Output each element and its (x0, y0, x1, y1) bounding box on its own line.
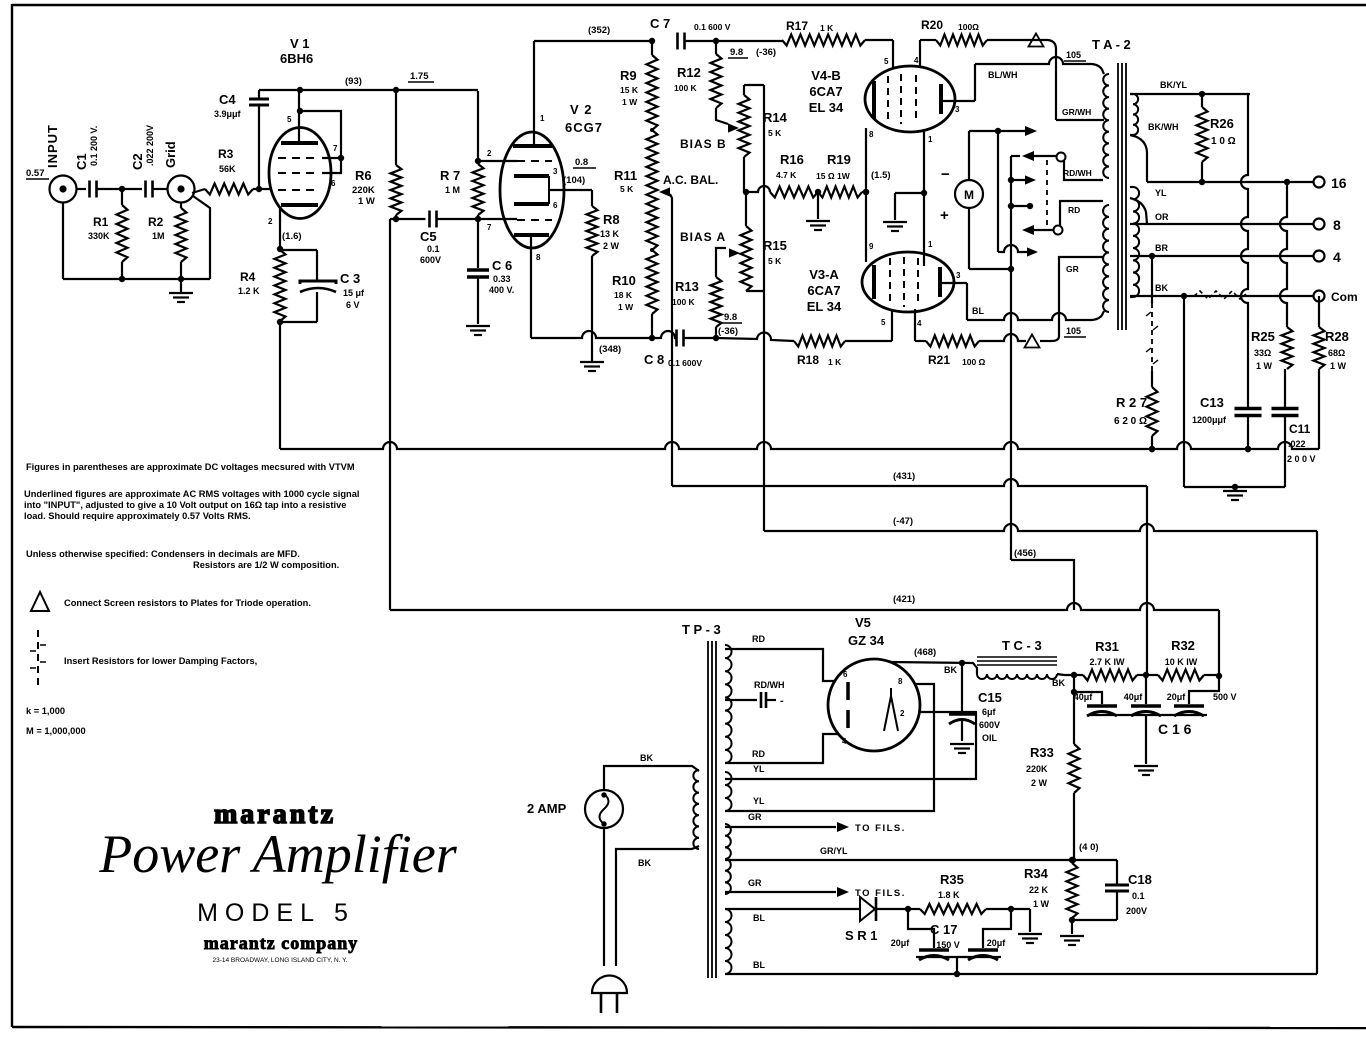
svg-text:C5: C5 (420, 229, 437, 244)
wire (684, 337, 717, 339)
svg-text:4: 4 (917, 319, 922, 328)
V2 grid2 (487, 220, 552, 232)
svg-text:RD: RD (752, 749, 765, 759)
svg-text:V5: V5 (855, 615, 871, 630)
terminal 4 (1314, 249, 1342, 265)
legend k (26, 706, 65, 716)
svg-text:V4-B: V4-B (811, 68, 841, 83)
svg-text:Figures in parentheses are app: Figures in parentheses are approximate D… (26, 462, 355, 472)
svg-text:3.9μμf: 3.9μμf (214, 109, 242, 119)
plate wire (352) (534, 25, 655, 44)
svg-text:9.8: 9.8 (730, 47, 743, 58)
V1 grids (278, 158, 320, 190)
svg-text:R2: R2 (148, 215, 164, 229)
C16 common (1089, 715, 1207, 764)
svg-text:105: 105 (1066, 326, 1081, 336)
resistor R12 (674, 41, 722, 108)
svg-text:R14: R14 (763, 110, 788, 125)
svg-text:T C - 3: T C - 3 (1002, 638, 1042, 653)
svg-text:500 V: 500 V (1213, 692, 1237, 702)
svg-text:1 W: 1 W (622, 97, 638, 107)
svg-text:8: 8 (1333, 217, 1341, 233)
svg-text:C 1 6: C 1 6 (1158, 721, 1192, 737)
svg-text:0.1 600V: 0.1 600V (668, 358, 702, 368)
fuse F1 2AMP (527, 790, 623, 828)
bias leg (1316, 531, 1318, 974)
damping insert marks (1194, 291, 1246, 299)
rectifier SR1 (845, 897, 911, 943)
svg-text:1.75: 1.75 (410, 71, 429, 82)
svg-text:0.57: 0.57 (26, 168, 45, 179)
TP-3 sec YL group (725, 772, 732, 811)
V5 internals (848, 682, 898, 731)
capacitor C7 (650, 16, 731, 50)
resistor R8 (587, 190, 620, 361)
svg-text:BK/YL: BK/YL (1160, 80, 1188, 90)
V2 grid1 (475, 91, 552, 164)
logo address (213, 957, 348, 964)
svg-text:GR: GR (748, 878, 762, 888)
ground (950, 744, 974, 753)
svg-text:R28: R28 (1325, 329, 1349, 344)
legend damping (30, 630, 257, 688)
BR tap (1130, 243, 1313, 259)
C17 common (916, 957, 1001, 977)
svg-text:8: 8 (869, 130, 874, 139)
svg-text:C 17: C 17 (930, 922, 957, 937)
svg-text:Resistors are 1/2 W compositio: Resistors are 1/2 W composition. (193, 560, 339, 570)
input jack J1 (45, 124, 77, 203)
note DC voltages (26, 462, 355, 472)
svg-text:R17: R17 (786, 19, 808, 33)
svg-text:3: 3 (956, 271, 961, 280)
svg-text:R4: R4 (240, 270, 256, 284)
svg-text:1.2 K: 1.2 K (238, 286, 260, 296)
svg-text:R9: R9 (620, 68, 637, 83)
svg-text:R11: R11 (614, 168, 637, 183)
svg-text:TO FILS.: TO FILS. (855, 823, 906, 834)
wire (279, 322, 281, 449)
svg-text:(1.5): (1.5) (871, 170, 891, 181)
TA-2 secondary upper (1130, 94, 1138, 135)
bus (421) (390, 594, 1219, 610)
V2 cathode box (514, 167, 592, 210)
svg-text:C 8: C 8 (644, 352, 664, 367)
svg-text:7: 7 (487, 223, 492, 232)
BIAS B wiper (716, 108, 739, 133)
svg-text:R15: R15 (763, 238, 787, 253)
svg-text:600V: 600V (979, 720, 1000, 730)
feedback bus (280, 442, 1319, 452)
svg-text:2 0 0 V: 2 0 0 V (1287, 454, 1316, 464)
svg-text:2 W: 2 W (603, 241, 620, 251)
svg-text:6: 6 (331, 179, 336, 188)
tube V4-B 6CA7 (809, 66, 955, 132)
svg-text:15 K: 15 K (620, 85, 639, 95)
16 ohm rail (1147, 179, 1313, 185)
svg-text:YL: YL (1155, 188, 1167, 198)
terminal Com (1314, 290, 1358, 304)
svg-text:R20: R20 (921, 18, 943, 32)
svg-text:16: 16 (1331, 175, 1347, 191)
label 9.8 -36 upper (728, 47, 776, 58)
svg-text:220K: 220K (352, 185, 375, 196)
svg-text:C 6: C 6 (492, 258, 512, 273)
svg-text:220K: 220K (1026, 764, 1048, 774)
svg-text:BR: BR (1155, 243, 1168, 253)
svg-text:load. Should require approxim: load. Should require approximately 0.57 … (24, 511, 251, 521)
svg-text:1.8 K: 1.8 K (938, 890, 960, 900)
terminal 16 (1314, 175, 1347, 191)
ground (1134, 766, 1158, 775)
label TA-2 (1092, 37, 1131, 52)
ground (1011, 909, 1042, 943)
431 feed to C16 (1146, 486, 1148, 675)
svg-text:1 0 Ω: 1 0 Ω (1211, 136, 1236, 147)
svg-text:M: M (964, 188, 974, 202)
V3 screen tap GR (1052, 257, 1103, 341)
svg-text:(-47): (-47) (893, 516, 913, 527)
svg-text:MODEL 5: MODEL 5 (197, 899, 355, 927)
svg-text:BIAS B: BIAS B (680, 137, 727, 151)
svg-text:8: 8 (536, 253, 541, 262)
com ground rail (1183, 296, 1185, 487)
svg-text:1 W: 1 W (618, 302, 634, 312)
TA-2 primary upper (1103, 74, 1109, 178)
svg-text:20μf: 20μf (987, 938, 1007, 948)
svg-text:R18: R18 (797, 353, 819, 367)
svg-text:56K: 56K (219, 164, 236, 174)
contact circle lower (1054, 226, 1063, 235)
cathode wire (348) (531, 331, 655, 355)
svg-text:40μf: 40μf (1124, 692, 1144, 702)
svg-text:2: 2 (268, 217, 273, 226)
svg-text:TO FILS.: TO FILS. (855, 888, 906, 899)
svg-text:6CA7: 6CA7 (807, 283, 840, 298)
resistor R28 (1314, 296, 1349, 449)
svg-text:k = 1,000: k = 1,000 (26, 706, 65, 716)
svg-text:(456): (456) (1014, 548, 1036, 559)
plate bus (93) (259, 76, 478, 93)
primary CT tap RD/WH (1063, 161, 1103, 180)
svg-text:RD/WH: RD/WH (1063, 168, 1092, 178)
choke TC-3 (977, 638, 1064, 679)
svg-text:into "INPUT", adjusted to give: into "INPUT", adjusted to give a 10 Volt… (24, 500, 346, 510)
capacitor C17 sect1 (891, 909, 949, 960)
contact dashed (1046, 160, 1048, 226)
V5 output (468) (890, 647, 977, 675)
BK/YL wire (1130, 80, 1250, 97)
svg-text:(421): (421) (893, 594, 915, 605)
svg-text:7: 7 (333, 144, 338, 153)
svg-text:0.1: 0.1 (427, 244, 440, 254)
svg-text:1 W: 1 W (1330, 361, 1347, 371)
BIAS A wiper (716, 248, 740, 277)
svg-text:(348): (348) (599, 344, 621, 355)
svg-text:C 7: C 7 (650, 16, 670, 31)
wire (438, 216, 518, 222)
note condensers (26, 549, 339, 570)
V3 pin5 (881, 310, 892, 341)
svg-text:BL: BL (753, 960, 765, 970)
svg-text:2: 2 (487, 149, 492, 158)
svg-text:1: 1 (540, 114, 545, 123)
resistor R21 (915, 336, 986, 368)
svg-text:C1: C1 (74, 153, 89, 170)
svg-text:R25: R25 (1251, 329, 1275, 344)
svg-text:YL: YL (753, 764, 765, 774)
svg-text:(4 0): (4 0) (1079, 842, 1099, 853)
svg-text:150 V: 150 V (936, 940, 960, 950)
plug (592, 846, 699, 1013)
svg-text:YL: YL (753, 796, 765, 806)
pot R15 (741, 192, 787, 291)
svg-text:(431): (431) (893, 471, 915, 482)
logo company (204, 933, 358, 953)
svg-text:marantz company: marantz company (204, 933, 358, 953)
svg-text:5 K: 5 K (768, 256, 782, 266)
contact arrows (1022, 151, 1056, 235)
svg-text:Insert Resistors for lower Da: Insert Resistors for lower Damping Facto… (64, 656, 257, 666)
V3 pin3 plate wire (942, 271, 967, 283)
capacitor C4 (214, 90, 269, 192)
svg-text:BL: BL (753, 913, 765, 923)
V1 plate (281, 90, 318, 143)
svg-text:BK: BK (1155, 283, 1168, 293)
V4 pin3 plate wire (943, 101, 975, 114)
svg-text:6BH6: 6BH6 (280, 51, 313, 66)
svg-text:BL: BL (972, 306, 984, 316)
svg-text:10 K IW: 10 K IW (1165, 657, 1198, 667)
svg-text:BK: BK (1052, 678, 1065, 688)
label 0.8 (573, 157, 596, 168)
resistor R7 (440, 161, 484, 219)
primary tap RD (1060, 201, 1103, 226)
svg-text:A.C. BAL.: A.C. BAL. (663, 173, 718, 187)
svg-text:BK: BK (638, 858, 651, 868)
svg-text:2 W: 2 W (1031, 778, 1048, 788)
label TP-3 (682, 622, 721, 637)
svg-text:(1.6): (1.6) (282, 231, 302, 242)
terminal 8 (1314, 217, 1342, 233)
svg-text:23-14 BROADWAY, LONG ISLAND: 23-14 BROADWAY, LONG ISLAND CITY, N. Y. (213, 957, 348, 964)
svg-text:22 K: 22 K (1029, 885, 1049, 895)
svg-text:.022 200V: .022 200V (145, 125, 155, 166)
capacitor C16 sect2 (1124, 675, 1161, 716)
svg-text:−: − (941, 166, 950, 183)
svg-text:C18: C18 (1128, 872, 1152, 887)
V3 pin4 (915, 309, 922, 341)
YL tap (1130, 188, 1167, 224)
svg-text:1 W: 1 W (1256, 361, 1273, 371)
svg-text:(104): (104) (563, 175, 585, 186)
node wire (390, 216, 426, 222)
svg-text:4: 4 (1333, 249, 1341, 265)
resistor R11 (614, 130, 658, 250)
421 leg to R32 (1218, 610, 1220, 676)
capacitor C13 (1192, 395, 1262, 452)
svg-text:V 2: V 2 (570, 102, 593, 117)
svg-text:Connect Screen resistors to P: Connect Screen resistors to Plates for T… (64, 598, 311, 608)
label 1.75 (408, 71, 434, 82)
svg-text:100 K: 100 K (672, 297, 696, 307)
label BK 2 (1052, 678, 1065, 688)
svg-text:R 7: R 7 (440, 168, 460, 183)
YL upper lead (725, 712, 976, 779)
V2 plate1 (513, 41, 552, 146)
svg-text:18 K: 18 K (614, 290, 633, 300)
svg-text:BIAS A: BIAS A (680, 230, 726, 244)
TP-3 primary (693, 770, 699, 849)
svg-text:+: + (940, 207, 949, 224)
YL lower lead (725, 684, 934, 811)
svg-text:(-36): (-36) (718, 326, 738, 337)
svg-text:(93): (93) (345, 76, 362, 87)
svg-text:Grid: Grid (163, 141, 178, 168)
label (456) (1014, 548, 1036, 559)
svg-text:(352): (352) (588, 25, 610, 36)
svg-text:8: 8 (898, 677, 903, 686)
svg-text:6 V: 6 V (346, 300, 360, 310)
svg-text:BK/WH: BK/WH (1148, 122, 1179, 132)
resistor R1 (88, 189, 128, 279)
svg-text:M = 1,000,000: M = 1,000,000 (26, 726, 86, 736)
wire+triangle (979, 334, 1052, 348)
capacitor C2 (130, 125, 155, 198)
V3 plate to primary BL (967, 283, 1104, 337)
svg-text:Unless otherwise specified:: Unless otherwise specified: Condensers i… (26, 549, 300, 559)
svg-text:EL 34: EL 34 (809, 100, 844, 115)
bus (-47) (764, 516, 1317, 531)
tube V2 6CG7 (500, 102, 603, 248)
label 9.8 -36 lower (718, 312, 742, 337)
resistor R27 (1114, 256, 1158, 452)
svg-text:C2: C2 (130, 153, 145, 170)
TA-2 secondary lower (1130, 187, 1139, 297)
capacitor C16 sect3 (1167, 676, 1237, 716)
pot R14 (739, 85, 788, 192)
svg-text:1: 1 (928, 240, 933, 249)
svg-text:(468): (468) (914, 647, 936, 658)
fuse wires BK (604, 753, 699, 966)
wire (153, 188, 168, 190)
bias rail -47 (763, 85, 765, 531)
svg-text:Com: Com (1331, 290, 1358, 304)
svg-text:13 K: 13 K (600, 229, 620, 239)
BK tap Com rail (1130, 283, 1313, 299)
BK/WH tap (1130, 122, 1179, 182)
svg-text:0.33: 0.33 (493, 274, 511, 284)
grid jack J2 (163, 141, 195, 202)
capacitor C1 (74, 126, 99, 198)
wire (76, 188, 86, 190)
TA-2 core (1118, 63, 1126, 330)
svg-text:Power Amplifier: Power Amplifier (98, 824, 457, 884)
TP-3 sec GR group (725, 824, 731, 894)
V1 screen wire pin7 (297, 108, 344, 188)
svg-text:15 μf: 15 μf (343, 288, 365, 298)
V3 pin1 (928, 240, 933, 249)
resistor R17 (782, 19, 893, 46)
wire B+ dropper (389, 219, 391, 610)
svg-text:GR: GR (1066, 264, 1079, 274)
svg-text:R32: R32 (1171, 638, 1195, 653)
resistor R16 (743, 152, 818, 198)
8 ohm rail (1147, 223, 1313, 225)
svg-text:R3: R3 (218, 147, 234, 161)
svg-text:1 K: 1 K (820, 23, 834, 33)
V4 pin5 (884, 40, 893, 68)
resistor R32 (1143, 638, 1222, 681)
svg-text:GR/YL: GR/YL (820, 846, 848, 856)
capacitor C17 sect2 (936, 909, 1011, 960)
svg-text:600V: 600V (420, 255, 441, 265)
svg-text:9.8: 9.8 (724, 312, 737, 323)
svg-text:6: 6 (553, 201, 558, 210)
svg-text:R31: R31 (1095, 639, 1119, 654)
RD bottom lead (725, 734, 847, 763)
label A.C. BAL. (663, 173, 718, 187)
resistor R25 (1251, 327, 1293, 371)
ground (466, 326, 490, 335)
V3 pin9 (869, 242, 874, 251)
V4 pin4 (914, 40, 920, 67)
capacitor C15 (949, 663, 1002, 743)
svg-text:5 K: 5 K (620, 184, 634, 194)
capacitor C6 (467, 219, 514, 324)
ground (1060, 920, 1084, 945)
svg-text:0.1 200 V.: 0.1 200 V. (89, 126, 99, 166)
label BIAS B (680, 137, 727, 151)
logo script (98, 824, 457, 884)
label 0.57 (26, 168, 49, 179)
svg-text:20μf: 20μf (891, 938, 911, 948)
RD/WH tap (725, 680, 785, 708)
svg-text:C11: C11 (1289, 422, 1311, 436)
contact circle upper (1057, 153, 1066, 162)
wire (97, 186, 142, 192)
svg-text:R1: R1 (93, 215, 109, 229)
svg-text:3: 3 (553, 167, 558, 176)
resistor R9 (620, 41, 658, 132)
GR lead 1 TO FILS (725, 812, 906, 834)
svg-text:1 W: 1 W (358, 196, 375, 207)
TA-2 primary lower (1103, 205, 1109, 312)
svg-text:0.8: 0.8 (575, 157, 588, 168)
svg-text:R35: R35 (940, 872, 964, 887)
svg-text:6CA7: 6CA7 (809, 84, 842, 99)
V4 internals (874, 74, 941, 124)
AC BAL wiper (659, 187, 672, 338)
grid rail (921, 130, 927, 266)
svg-text:400 V.: 400 V. (489, 285, 514, 295)
TP-3 sec RD group (725, 645, 732, 763)
logo marantz (214, 799, 336, 830)
ground bus (63, 196, 210, 282)
svg-text:4: 4 (914, 56, 919, 65)
svg-text:1: 1 (928, 135, 933, 144)
svg-text:GZ 34: GZ 34 (848, 633, 885, 648)
svg-text:V 1: V 1 (290, 36, 310, 51)
svg-text:15 Ω 1W: 15 Ω 1W (816, 171, 851, 181)
screen strap + triangle (987, 34, 1104, 121)
svg-text:100 K: 100 K (674, 83, 698, 93)
svg-text:2 AMP: 2 AMP (527, 801, 567, 816)
OR tap (1130, 212, 1169, 224)
label (104) (563, 175, 585, 186)
V4 pin1 (928, 135, 933, 144)
svg-text:-: - (780, 695, 784, 707)
